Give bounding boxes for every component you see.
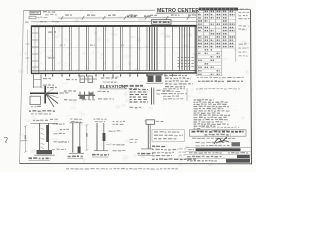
elevation caption center xyxy=(100,84,127,89)
small marks below chord near x115 xyxy=(112,76,119,78)
authority name dark band xyxy=(188,148,241,151)
section S4 stem xyxy=(148,125,150,149)
table header dark band xyxy=(199,8,248,11)
boxed reference note block xyxy=(152,130,185,142)
notes list lines xyxy=(152,149,178,155)
table right sub-column notes xyxy=(239,12,250,56)
right of S3 note rows xyxy=(113,121,126,150)
section S4 left small text xyxy=(130,139,138,142)
section S2 base line xyxy=(69,152,84,154)
right end stitch dashes xyxy=(178,58,194,67)
section S2 top line xyxy=(70,122,83,124)
truss right end dense post cluster xyxy=(180,27,190,71)
title block project row with dark cell xyxy=(186,155,251,159)
section S1 top line xyxy=(31,122,59,124)
small tag left of detail box xyxy=(127,15,151,17)
notes list long bottom line xyxy=(152,158,196,160)
section S1 right leader notes xyxy=(52,124,67,150)
notes list heading xyxy=(152,145,165,147)
table row rules xyxy=(197,13,236,76)
margin scribble far left xyxy=(4,137,7,142)
sheet top border xyxy=(23,10,250,11)
section S1 caption top xyxy=(33,119,58,120)
section S4 base xyxy=(141,148,153,150)
section S4 caption xyxy=(138,153,154,155)
connection ticks below bottom chord xyxy=(46,74,173,76)
title block rule above authority band xyxy=(186,147,251,149)
corner connection detail horizontal member xyxy=(30,92,58,94)
truss bottom chord upper line xyxy=(31,69,197,72)
title block faint top row xyxy=(201,126,239,128)
section S3 caption below xyxy=(92,155,109,157)
truss top chord xyxy=(31,25,197,27)
section S1 left wall xyxy=(39,124,41,155)
title block mid rows xyxy=(196,142,241,146)
top-left key plan box 1 xyxy=(30,11,41,14)
hatched detail caption xyxy=(130,106,142,108)
sheet bottom border xyxy=(20,162,252,164)
section S1 left dimension line xyxy=(24,126,27,153)
hatched detail annotation xyxy=(157,90,171,94)
drawing title METRO heading xyxy=(157,8,201,14)
truss bottom chord xyxy=(31,72,197,75)
left end lower bracket detail xyxy=(34,75,55,89)
table left boundary xyxy=(196,10,198,76)
section S1 right wall xyxy=(48,124,50,155)
section S3 right leaders xyxy=(106,131,125,145)
inter-section dimension line xyxy=(85,124,88,151)
hatched plate detail rows xyxy=(130,90,149,103)
top-left label text right of box xyxy=(43,12,57,15)
truss right end post xyxy=(195,26,196,74)
corner detail caption xyxy=(29,111,55,114)
sheet right border xyxy=(251,10,252,165)
right bearing bracket detail xyxy=(146,75,163,83)
section S4 top box xyxy=(145,120,164,125)
title block bottom row drawing number xyxy=(187,159,250,163)
mid-span bracket marks below chord xyxy=(66,76,117,83)
far-left pointer tick xyxy=(21,140,28,143)
small dimension notes upper-left xyxy=(25,20,59,23)
corner connection detail vertical member xyxy=(44,86,46,104)
section S1 dark infill xyxy=(46,125,48,142)
top-left key plan box 2 xyxy=(29,16,47,19)
section S2 walls xyxy=(73,123,80,153)
signature scribble xyxy=(214,138,229,145)
general notes paragraph right side xyxy=(194,100,231,127)
title block signature row xyxy=(192,137,235,139)
section S3 dark blob xyxy=(103,133,106,141)
section S2 left leaders xyxy=(60,129,69,142)
corner detail gusset box xyxy=(30,96,41,104)
section S1 hatch ticks xyxy=(41,128,45,149)
caption left of bearing detail xyxy=(121,86,143,89)
section S1 caption below xyxy=(29,158,51,161)
truss upper thin flange line xyxy=(31,20,197,22)
truss vertical posts xyxy=(46,27,173,71)
left dimension extension line xyxy=(26,30,30,74)
title block rows under authority band xyxy=(186,151,251,154)
section S2 caption below xyxy=(68,156,84,158)
table caption rows below xyxy=(196,77,244,89)
section S3 base line xyxy=(94,150,108,152)
microfilm footer caption xyxy=(66,168,178,171)
hatched detail right edge posts xyxy=(152,88,154,105)
scan background mottling xyxy=(18,9,253,166)
dimension tick marks xyxy=(61,16,189,19)
right leader note rows xyxy=(163,88,187,101)
section S3 caption top xyxy=(94,119,107,122)
truss left end post assembly xyxy=(31,26,38,74)
table column lines xyxy=(204,11,236,77)
dimension texts above line xyxy=(65,14,196,16)
tiny text column left of title block xyxy=(179,149,187,155)
right detail leader text lines xyxy=(165,75,193,86)
mid hanger detail xyxy=(64,91,114,100)
section S2 caption top xyxy=(70,119,82,122)
table cell entries xyxy=(198,11,235,74)
sheet left border xyxy=(20,11,24,164)
section S2 dark base blob xyxy=(78,147,81,154)
truss mid-span dense post cluster xyxy=(150,27,158,71)
section S1 footing xyxy=(34,150,55,155)
corner detail diagonal braces xyxy=(46,89,59,108)
corner detail annotations xyxy=(31,87,68,106)
marks below notes xyxy=(194,128,229,130)
section S3 walls xyxy=(97,123,104,151)
title block approval box xyxy=(190,130,247,136)
truss interior small labels xyxy=(48,32,124,58)
top dimension line xyxy=(58,17,196,20)
faint truss mid joint line xyxy=(31,46,196,48)
detail tag box above right end xyxy=(152,20,172,25)
